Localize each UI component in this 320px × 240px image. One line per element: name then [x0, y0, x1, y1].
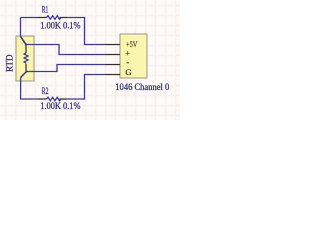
wire R2 right to G pin [67, 75, 105, 100]
pin - [105, 64, 120, 66]
junction at RTD top [25, 43, 27, 45]
svg-text:-: - [126, 57, 129, 67]
resistor element inside RTD [24, 45, 28, 72]
wire RTD bottom to - pin [27, 65, 106, 72]
svg-text:G: G [125, 67, 132, 77]
resistor R2 [39, 97, 68, 101]
wire RTD bottom down to R2 [21, 72, 27, 78]
wire from RTD top to R1 left [21, 18, 27, 45]
svg-text:R1: R1 [42, 4, 49, 15]
wire R1 left lead [21, 17, 39, 19]
junction at RTD bottom [25, 70, 27, 72]
svg-text:RTD: RTD [5, 54, 15, 72]
RTD sensor body (yellow box) [16, 36, 34, 81]
pin G [105, 74, 120, 76]
wire R1 right to +5V pin [67, 18, 105, 45]
svg-text:1046 Channel 0: 1046 Channel 0 [115, 83, 169, 93]
svg-text:1.00K 0.1%: 1.00K 0.1% [40, 22, 80, 32]
resistor R1 [39, 16, 68, 20]
pin +5V [105, 44, 120, 46]
connector 1046 Channel 0 body (yellow box) [120, 34, 147, 78]
svg-text:R2: R2 [42, 86, 49, 97]
pin + [105, 54, 120, 56]
svg-text:1.00K 0.1%: 1.00K 0.1% [40, 102, 80, 112]
wire RTD top to + pin [26, 45, 105, 55]
